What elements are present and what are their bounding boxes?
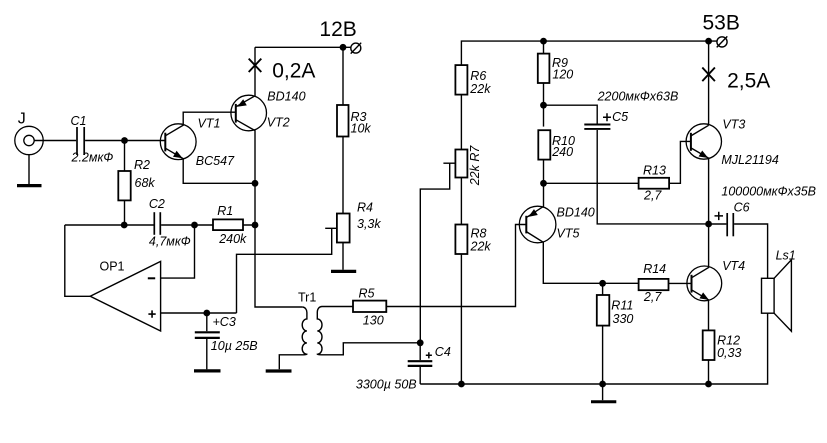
transistor VT1 circle [160,124,196,160]
svg-text:R6: R6 [470,69,486,83]
svg-text:R13: R13 [643,164,666,178]
resistor R3 [337,105,349,137]
capacitor C2 [154,212,160,235]
wire VT2 collector down to Tr1 primary [236,120,302,307]
transistor VT4 base bar [691,275,693,293]
input jack J connector [15,126,43,154]
wire VT5 collector down to R14 node [526,232,602,284]
svg-text:120: 120 [552,67,573,81]
node dot C2/R1/op-amp minus [191,222,198,229]
wire R3 top lead [342,47,344,105]
wire VT3 base to R13 [669,141,691,183]
wire R5 to VT5 base [386,225,526,307]
wire fuse to VT3 collector [708,41,710,125]
svg-text:22k R7: 22k R7 [468,145,482,187]
resistor R2 [118,171,130,200]
transformer Tr1 primary winding [279,307,307,369]
node dot R1/VT2 collector [252,222,259,229]
svg-text:330: 330 [613,312,634,326]
resistor R6 [455,65,467,95]
wire R10 bottom to node [543,160,545,184]
label C6 plus [715,212,724,220]
wire 12V rail [255,46,351,48]
wire R14 left lead [603,282,639,284]
ground under R4 [331,270,356,273]
resistor R9 [538,54,550,83]
resistor R4 (with tap) [337,214,350,243]
svg-text:3,3k: 3,3k [357,217,381,231]
resistor R1 [213,219,243,230]
transistor VT5 base bar [525,216,527,234]
wire C6 to speaker [734,224,768,278]
R4 wiper tap [325,227,337,229]
wire R9 to R10 [543,83,545,127]
svg-text:С4: С4 [435,345,451,359]
svg-text:0,2А: 0,2А [272,59,315,82]
wire C5 bottom to VT3 emitter node [597,130,708,224]
transistor VT4 circle [687,266,722,301]
wire R12 bottom to bus [708,360,710,384]
label C4 plus [426,352,432,358]
node dot VT5 collector / R14 / R11 [599,280,606,287]
wire R2 top lead [124,141,126,172]
wire R7 to R8 [460,178,462,225]
wire feedback row (op-amp out / R2 / C2 / R1) [65,224,255,226]
wire C1 to VT1 base [85,140,165,142]
capacitor C3 [195,313,220,369]
capacitor C6 [727,213,733,236]
svg-text:2,7: 2,7 [643,290,662,304]
wire R7 wiper to C4 node [420,163,449,343]
svg-text:VT5: VT5 [557,227,580,241]
resistor R11 [597,295,610,326]
label C5 plus [603,113,611,121]
svg-text:VT1: VT1 [198,117,221,131]
ground symbol on bus [602,384,604,400]
svg-text:3300µ 50В: 3300µ 50В [356,377,417,391]
wire op-amp plus input [161,312,237,314]
svg-text:0,33: 0,33 [717,346,741,360]
svg-text:2.2мкФ: 2.2мкФ [71,151,114,165]
speaker Ls1 box [762,278,775,313]
wire jack to C1 [34,140,76,142]
ground under Tr1 primary [266,369,292,372]
transistor VT3 base bar [690,133,692,151]
node dot VT1 emitter / VT2 collector [252,180,259,187]
node dot Tr1/C4/R7-wiper [417,339,424,346]
node dot C1/R2/VT1 [121,137,128,144]
wire op-amp minus input [161,225,195,278]
node dot R10/R13/VT5 emitter [540,180,547,187]
R7 wiper tap [443,162,455,164]
wire VT4 emitter down to R12 [692,290,709,331]
wire VT4 collector up [692,224,709,278]
svg-text:VT4: VT4 [722,259,745,273]
transistor VT2 circle [231,95,267,131]
svg-text:VT2: VT2 [267,115,290,129]
svg-text:68k: 68k [135,176,156,190]
wire R3 to R4 [342,137,344,214]
svg-text:130: 130 [363,314,384,328]
svg-text:BC547: BC547 [196,154,235,168]
wire R11 bottom to bus [602,326,604,384]
wire op-amp output feedback [65,225,90,296]
fuse X 12V [249,59,262,72]
ground under jack [17,184,42,187]
resistor R12 [703,330,715,360]
op-amp plus input sign [148,310,155,317]
wire node to C6 [709,223,727,225]
wire 53V rail with R6 drop [461,41,716,65]
svg-text:R11: R11 [611,299,633,313]
wire R4 wiper to op-amp + input [237,228,332,313]
wire R14 to VT4 base [669,282,692,284]
resistor R10 [538,130,550,159]
svg-text:Ls1: Ls1 [776,248,796,262]
svg-text:100000мкФх35В: 100000мкФх35В [721,185,816,199]
VT3 collector diagonal [691,125,709,136]
speaker Ls1 horn [774,260,791,331]
svg-text:J: J [18,111,26,128]
svg-text:2,5А: 2,5А [727,69,770,92]
wire ground bus [420,312,767,384]
svg-text:2,7: 2,7 [643,189,662,203]
transistor VT1 base bar [164,133,166,152]
capacitor C5 [584,125,610,129]
svg-text:R14: R14 [643,262,666,276]
fuse X 53V [702,68,715,82]
svg-text:12В: 12В [319,18,356,41]
node dot bus/R11 [599,381,606,388]
svg-text:4,7мкФ: 4,7мкФ [149,234,191,248]
svg-text:53В: 53В [703,12,740,35]
node dot bus/R12 [705,381,712,388]
svg-text:R8: R8 [471,226,487,240]
svg-text:OP1: OP1 [100,260,125,274]
VT1 emitter arrow (NPN) [173,151,183,159]
resistor R5 [353,301,386,312]
svg-text:+С3: +С3 [213,315,236,329]
wire R9 top lead [543,41,545,53]
svg-text:10k: 10k [351,122,372,136]
node dot rail/R9 [540,38,547,45]
wire R6 to R7 [460,95,462,150]
capacitor C4 [408,343,433,384]
svg-text:240: 240 [551,145,573,159]
wire R11 top lead [602,283,604,295]
wire VT1 collector to VT2 base [165,112,236,136]
ground bar under bus [591,400,616,403]
svg-text:MJL21194: MJL21194 [721,153,778,167]
transistor VT5 circle [519,206,556,243]
node dot R2 bottom [121,222,128,229]
svg-text:R5: R5 [359,286,375,300]
transformer Tr1 secondary winding [317,307,417,355]
terminal 12V [351,43,362,54]
wire jack stem [28,155,30,184]
wire VT5 emitter up [526,183,543,217]
node dot bus/R8 [458,381,465,388]
op-amp minus input sign [148,277,155,279]
svg-text:240k: 240k [218,232,247,246]
node dot plus input / C3 [203,310,210,317]
wire R8 bottom to ground bus [460,254,462,384]
svg-text:2200мкФх63В: 2200мкФх63В [597,89,679,103]
svg-text:C1: C1 [71,114,87,128]
terminal 53V [717,36,728,47]
resistor R7 (trimmer) [455,150,467,178]
wire C5 top branch [544,105,598,123]
op-amp U1 triangle [90,261,160,331]
wire R2 bottom lead [124,200,126,225]
wire R4 bottom lead [342,243,344,270]
wire VT3 emitter down [691,148,709,224]
svg-text:С5: С5 [612,110,628,124]
VT3 emitter arrow (NPN) [699,151,709,159]
node dot rail/fuse [705,38,712,45]
svg-text:Tr1: Tr1 [298,291,316,305]
ground under C3 [194,369,221,372]
svg-text:BD140: BD140 [267,90,305,104]
node dot 12V rail / R3 [340,44,347,51]
VT4 emitter arrow (NPN) [700,292,710,300]
transistor VT3 circle [686,124,721,159]
svg-text:С6: С6 [734,201,750,215]
capacitor C1 [77,127,84,155]
VT2 emitter arrow (PNP) [237,99,247,107]
svg-text:10µ 25В: 10µ 25В [211,339,258,353]
wire R13 left lead [544,182,639,184]
svg-text:R2: R2 [134,158,150,172]
resistor R13 [639,178,670,189]
svg-text:22k: 22k [470,239,492,253]
resistor R14 [639,279,669,290]
node dot R9/R10/C5 [540,102,547,109]
svg-text:R1: R1 [217,204,233,218]
transistor VT2 base bar [235,104,237,123]
svg-text:BD140: BD140 [557,206,595,220]
resistor R8 [455,225,467,255]
svg-text:C2: C2 [149,197,165,211]
svg-text:VT3: VT3 [722,117,745,131]
svg-text:22k: 22k [469,82,491,96]
wire VT2 emitter up to fuse [236,47,255,107]
svg-text:R4: R4 [357,201,373,215]
node dot VT3 emitter / C6 / VT4 collector [705,221,712,228]
VT5 emitter arrow (PNP) [528,209,538,217]
wire VT1 emitter down to node [165,148,255,183]
